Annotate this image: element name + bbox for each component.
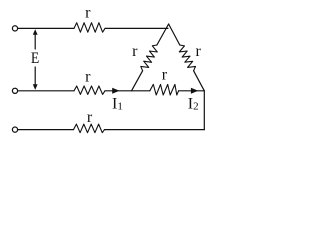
svg-text:r: r: [85, 69, 91, 86]
svg-text:r: r: [196, 43, 202, 60]
terminal T2 (middle left): [12, 88, 17, 93]
svg-text:I1: I1: [112, 95, 123, 112]
svg-text:I2: I2: [188, 95, 199, 112]
voltage arrow E stem upper: [34, 33, 36, 49]
resistor r (bottom rail): [74, 124, 105, 133]
wire middle rail right: [179, 90, 205, 92]
wire middle rail to delta: [105, 90, 150, 92]
svg-text:E: E: [31, 50, 39, 67]
arrowhead E down: [33, 84, 38, 90]
svg-text:r: r: [87, 109, 93, 126]
voltage arrow E stem lower: [34, 67, 36, 86]
resistor r (delta right leg): [179, 45, 195, 71]
wire right vertical edge: [203, 91, 205, 130]
svg-text:r: r: [85, 4, 91, 21]
resistor r (delta left leg): [141, 45, 158, 71]
wire middle rail left: [18, 90, 74, 92]
wire delta apex stub right: [169, 24, 180, 45]
arrowhead current I1: [112, 88, 119, 94]
resistor r (top rail): [74, 23, 105, 33]
resistor r (middle rail): [74, 86, 105, 94]
wire top rail left: [18, 27, 74, 29]
wire bottom rail right: [105, 129, 205, 131]
wire top rail right: [105, 27, 168, 29]
wire bottom rail left: [18, 129, 74, 131]
svg-text:r: r: [132, 43, 138, 60]
resistor r (delta bottom): [150, 84, 179, 95]
terminal T3 (bottom left): [12, 127, 17, 132]
arrowhead E up: [33, 29, 38, 35]
wire delta left leg lower stub: [132, 71, 143, 91]
wire delta right leg lower stub: [194, 71, 205, 91]
terminal T1 (top left): [12, 26, 17, 31]
svg-text:r: r: [162, 67, 168, 84]
arrowhead current I2: [191, 88, 198, 94]
wire delta apex stub left: [157, 24, 169, 45]
